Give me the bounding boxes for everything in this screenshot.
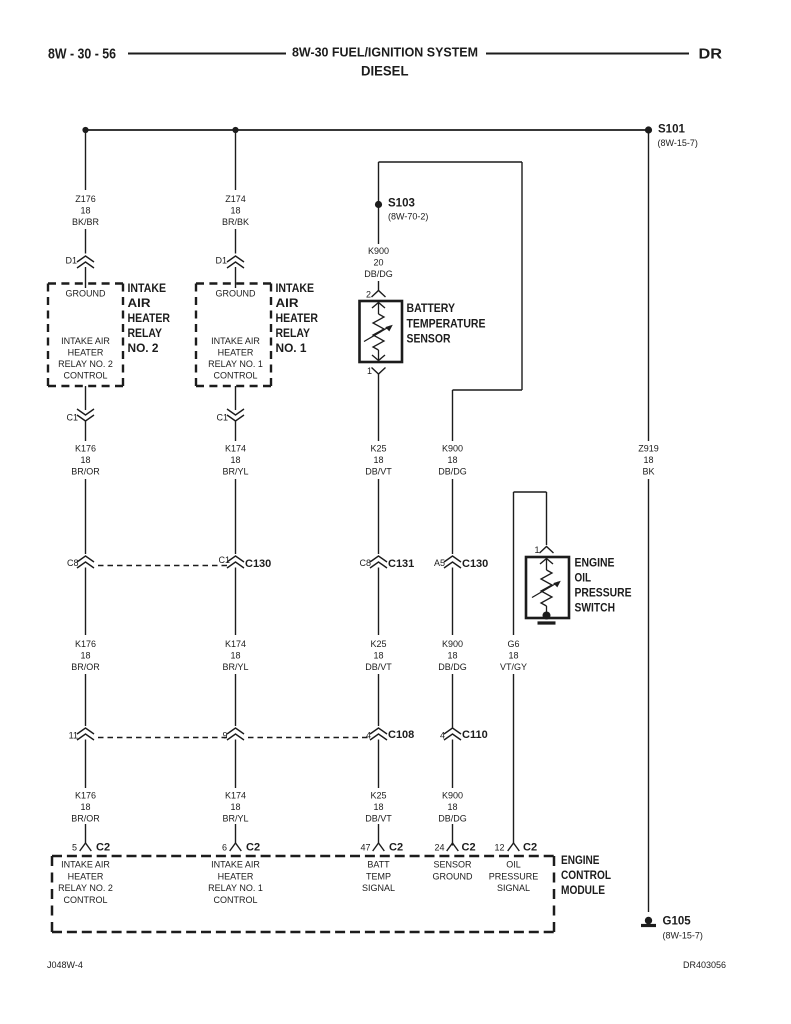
wire label Z919 18 BK bbox=[638, 444, 659, 477]
svg-text:C8: C8 bbox=[67, 558, 79, 568]
connector C2 pin 6 bbox=[230, 843, 242, 851]
svg-text:K174: K174 bbox=[225, 444, 246, 454]
svg-text:Z176: Z176 bbox=[75, 194, 96, 204]
wire K900 18 segment e bbox=[452, 740, 454, 789]
connector pin 1 battery temperature sensor bbox=[372, 368, 386, 375]
wire Z176 upper segment bbox=[85, 130, 87, 190]
svg-text:BR/YL: BR/YL bbox=[222, 814, 248, 824]
svg-text:OIL: OIL bbox=[506, 860, 521, 870]
svg-text:5: 5 bbox=[72, 843, 77, 853]
bus wire top horizontal bbox=[86, 129, 649, 131]
svg-text:BR/YL: BR/YL bbox=[222, 662, 248, 672]
svg-text:C131: C131 bbox=[388, 558, 414, 570]
svg-text:INTAKE AIR: INTAKE AIR bbox=[211, 860, 260, 870]
svg-text:NO. 2: NO. 2 bbox=[128, 343, 159, 355]
svg-text:C1: C1 bbox=[66, 413, 78, 423]
svg-text:BR/OR: BR/OR bbox=[71, 814, 100, 824]
svg-text:K174: K174 bbox=[225, 791, 246, 801]
wire label Z174 18 BR/BK bbox=[222, 194, 249, 227]
svg-text:20: 20 bbox=[373, 258, 383, 268]
svg-text:K25: K25 bbox=[370, 791, 386, 801]
wire K900 20 below splice bbox=[378, 208, 380, 244]
dashed connector link line C130 row bbox=[98, 565, 227, 567]
svg-text:BR/OR: BR/OR bbox=[71, 662, 100, 672]
svg-text:MODULE: MODULE bbox=[561, 885, 605, 897]
wire K176 segment d bbox=[85, 674, 87, 726]
component name BATTERY TEMPERATURE SENSOR bbox=[407, 303, 486, 346]
oil switch internal pin chevron bbox=[540, 559, 553, 565]
svg-text:C2: C2 bbox=[246, 842, 260, 854]
splice S101 bbox=[645, 126, 652, 133]
svg-text:BATT: BATT bbox=[367, 860, 390, 870]
svg-text:K900: K900 bbox=[368, 246, 389, 256]
ECM pin 12 function text bbox=[489, 860, 539, 894]
wire K900 18 segment a bbox=[452, 390, 454, 441]
connector C2 pin 24 bbox=[447, 843, 459, 851]
wire K25 segment d bbox=[378, 674, 380, 726]
svg-text:HEATER: HEATER bbox=[218, 348, 254, 358]
wire label K176 18 BR/OR first bbox=[71, 444, 100, 477]
wire below relay no.1 box bbox=[235, 386, 237, 410]
wire oil switch loop right vertical bbox=[546, 492, 548, 545]
svg-text:TEMP: TEMP bbox=[366, 871, 391, 881]
svg-text:A5: A5 bbox=[434, 558, 445, 568]
svg-text:DR403056: DR403056 bbox=[683, 960, 726, 970]
oil pressure switch case ground dot bbox=[543, 612, 551, 620]
wire K900 18 segment b bbox=[452, 479, 454, 554]
wire K174 segment f bbox=[235, 824, 237, 843]
svg-text:K25: K25 bbox=[370, 444, 386, 454]
wire label K176 18 BR/OR second bbox=[71, 639, 100, 672]
wire oil switch loop top horizontal bbox=[514, 491, 547, 493]
svg-text:C1: C1 bbox=[216, 413, 228, 423]
svg-text:1: 1 bbox=[367, 366, 372, 376]
wire K900 18 segment c bbox=[452, 568, 454, 636]
sensor internal pin 2 chevron bbox=[372, 303, 385, 309]
wire label K176 18 BR/OR third bbox=[71, 791, 100, 824]
intake air heater relay no.2 dashed box bbox=[48, 284, 123, 387]
svg-text:RELAY: RELAY bbox=[128, 328, 163, 340]
svg-text:(8W-70-2): (8W-70-2) bbox=[388, 212, 428, 222]
svg-text:SIGNAL: SIGNAL bbox=[497, 883, 530, 893]
svg-text:C130: C130 bbox=[245, 558, 271, 570]
svg-text:GROUND: GROUND bbox=[66, 289, 106, 299]
svg-text:HEATER: HEATER bbox=[128, 313, 171, 325]
wire K176 segment e bbox=[85, 740, 87, 789]
wire G6 lower segment bbox=[513, 674, 515, 843]
component name ENGINE CONTROL MODULE bbox=[561, 855, 611, 897]
svg-text:18: 18 bbox=[230, 651, 240, 661]
connector D1 relay no.2 bbox=[77, 256, 94, 268]
wire Z919 upper segment bbox=[648, 133, 650, 441]
wire Z174 upper segment bbox=[235, 130, 237, 190]
svg-text:K900: K900 bbox=[442, 791, 463, 801]
svg-text:18: 18 bbox=[508, 651, 518, 661]
splice S103 bbox=[375, 201, 382, 208]
svg-text:PRESSURE: PRESSURE bbox=[489, 871, 539, 881]
svg-text:AIR: AIR bbox=[128, 298, 152, 310]
svg-text:DIESEL: DIESEL bbox=[361, 63, 409, 79]
svg-text:CONTROL: CONTROL bbox=[213, 371, 257, 381]
battery temperature sensor box bbox=[360, 301, 403, 362]
wire K25 segment c bbox=[378, 568, 380, 636]
wire loop top horizontal from sensor branch bbox=[379, 161, 523, 163]
svg-text:K174: K174 bbox=[225, 639, 246, 649]
svg-text:RELAY NO. 2: RELAY NO. 2 bbox=[58, 359, 113, 369]
connector C130 pin C1 bbox=[227, 556, 244, 568]
battery temperature sensor thermistor element bbox=[364, 303, 393, 361]
wire label K25 18 DB/VT first bbox=[365, 444, 392, 477]
svg-text:C2: C2 bbox=[389, 842, 403, 854]
connector C130 pin C8 bbox=[77, 556, 94, 568]
sensor internal pin 1 chevron bbox=[372, 355, 385, 361]
wire loop bottom horizontal bbox=[453, 389, 523, 391]
svg-text:J048W-4: J048W-4 bbox=[47, 960, 83, 970]
svg-text:18: 18 bbox=[447, 802, 457, 812]
component name ENGINE OIL PRESSURE SWITCH bbox=[575, 558, 632, 615]
svg-text:PRESSURE: PRESSURE bbox=[575, 588, 632, 600]
svg-text:1: 1 bbox=[534, 545, 539, 555]
svg-text:(8W-15-7): (8W-15-7) bbox=[658, 138, 698, 148]
engine oil pressure switch box bbox=[526, 557, 569, 618]
svg-text:CONTROL: CONTROL bbox=[561, 870, 611, 882]
wire K25 segment e bbox=[378, 740, 380, 789]
svg-text:SWITCH: SWITCH bbox=[575, 603, 616, 615]
svg-text:G6: G6 bbox=[507, 639, 519, 649]
wire K174 segment c bbox=[235, 568, 237, 636]
svg-text:18: 18 bbox=[80, 455, 90, 465]
wire K176 segment b bbox=[85, 479, 87, 554]
svg-text:D1: D1 bbox=[215, 256, 227, 266]
wire label K174 18 BR/YL second bbox=[222, 639, 248, 672]
svg-text:18: 18 bbox=[643, 455, 653, 465]
svg-text:C108: C108 bbox=[388, 729, 414, 741]
wire K174 segment e bbox=[235, 740, 237, 789]
wire G6 upper segment bbox=[513, 492, 515, 635]
svg-text:GROUND: GROUND bbox=[216, 289, 256, 299]
connector C108 pin 11 bbox=[77, 728, 94, 740]
wire K900 20 to sensor pin bbox=[378, 281, 380, 291]
svg-text:K176: K176 bbox=[75, 639, 96, 649]
svg-text:BK: BK bbox=[642, 467, 654, 477]
intake air heater relay no.1 dashed box bbox=[196, 284, 271, 387]
svg-text:GROUND: GROUND bbox=[433, 871, 473, 881]
wire label K174 18 BR/YL third bbox=[222, 791, 248, 824]
wire label G6 18 VT/GY bbox=[500, 639, 527, 672]
svg-text:RELAY: RELAY bbox=[276, 328, 311, 340]
svg-text:Z174: Z174 bbox=[225, 194, 246, 204]
wire K174 segment b bbox=[235, 479, 237, 554]
connector C2 pin 5 bbox=[80, 843, 92, 851]
svg-text:CONTROL: CONTROL bbox=[63, 371, 107, 381]
connector pin 1 oil pressure switch bbox=[540, 547, 554, 554]
svg-text:47: 47 bbox=[360, 843, 370, 853]
wire K174 segment a bbox=[235, 421, 237, 442]
svg-text:ENGINE: ENGINE bbox=[575, 558, 615, 570]
wire label K900 18 DB/DG first bbox=[438, 444, 467, 477]
svg-text:24: 24 bbox=[434, 843, 444, 853]
svg-text:RELAY NO. 1: RELAY NO. 1 bbox=[208, 359, 263, 369]
svg-text:HEATER: HEATER bbox=[218, 871, 254, 881]
svg-text:6: 6 bbox=[222, 843, 227, 853]
relay no.1 function text bbox=[208, 336, 263, 381]
svg-text:DB/DG: DB/DG bbox=[364, 269, 393, 279]
svg-text:Z919: Z919 bbox=[638, 444, 659, 454]
wire label K900 18 DB/DG second bbox=[438, 639, 467, 672]
wire into relay no.2 box bbox=[85, 267, 87, 288]
wire K900 18 segment f bbox=[452, 824, 454, 846]
svg-text:DB/DG: DB/DG bbox=[438, 662, 467, 672]
svg-text:8W - 30 - 56: 8W - 30 - 56 bbox=[48, 46, 116, 63]
svg-text:18: 18 bbox=[447, 651, 457, 661]
svg-text:C2: C2 bbox=[462, 842, 476, 854]
wire K25 segment b bbox=[378, 479, 380, 554]
svg-text:DB/DG: DB/DG bbox=[438, 467, 467, 477]
svg-text:ENGINE: ENGINE bbox=[561, 855, 600, 867]
wire K25 segment f bbox=[378, 824, 380, 843]
wire label K25 18 DB/VT third bbox=[365, 791, 392, 824]
svg-text:K900: K900 bbox=[442, 639, 463, 649]
svg-text:12: 12 bbox=[494, 843, 504, 853]
svg-text:DB/DG: DB/DG bbox=[438, 814, 467, 824]
ECM pin 24 function text bbox=[433, 860, 473, 882]
dashed connector link line C108 row right bbox=[248, 737, 370, 739]
connector C110 pin 4 bbox=[444, 728, 461, 740]
svg-text:S103: S103 bbox=[388, 198, 415, 210]
svg-text:SIGNAL: SIGNAL bbox=[362, 883, 395, 893]
svg-text:INTAKE AIR: INTAKE AIR bbox=[61, 336, 110, 346]
svg-text:C1: C1 bbox=[218, 555, 230, 565]
wire K176 segment f bbox=[85, 824, 87, 843]
component name INTAKE AIR HEATER RELAY NO. 1 bbox=[276, 283, 319, 355]
ground G105 symbol bbox=[641, 917, 656, 926]
wire Z919 lower segment bbox=[648, 479, 650, 912]
header left rule bbox=[128, 53, 286, 55]
svg-text:18: 18 bbox=[447, 455, 457, 465]
svg-text:DB/VT: DB/VT bbox=[365, 662, 392, 672]
svg-text:RELAY NO. 2: RELAY NO. 2 bbox=[58, 883, 113, 893]
svg-text:K176: K176 bbox=[75, 791, 96, 801]
wire K900 20 upper segment bbox=[378, 162, 380, 201]
connector C2 pin 12 bbox=[508, 843, 520, 851]
svg-text:INTAKE AIR: INTAKE AIR bbox=[61, 860, 110, 870]
component name INTAKE AIR HEATER RELAY NO. 2 bbox=[128, 283, 171, 355]
svg-text:18: 18 bbox=[80, 802, 90, 812]
svg-text:BR/BK: BR/BK bbox=[222, 217, 249, 227]
svg-text:G105: G105 bbox=[663, 916, 692, 928]
svg-text:BR/OR: BR/OR bbox=[71, 467, 100, 477]
svg-text:DB/VT: DB/VT bbox=[365, 467, 392, 477]
connector C2 pin 47 bbox=[373, 843, 385, 851]
wire label K900 20 DB/DG bbox=[364, 246, 393, 279]
wire below relay no.2 box bbox=[85, 386, 87, 410]
connector C1 relay no.2 bbox=[77, 409, 94, 421]
svg-text:RELAY NO. 1: RELAY NO. 1 bbox=[208, 883, 263, 893]
svg-text:BATTERY: BATTERY bbox=[407, 303, 456, 315]
svg-text:18: 18 bbox=[230, 802, 240, 812]
svg-text:9: 9 bbox=[222, 731, 227, 741]
svg-text:HEATER: HEATER bbox=[68, 871, 104, 881]
relay no.2 function text bbox=[58, 336, 113, 381]
svg-text:INTAKE AIR: INTAKE AIR bbox=[211, 336, 260, 346]
ECM pin 47 function text bbox=[362, 860, 395, 894]
svg-text:C8: C8 bbox=[359, 558, 371, 568]
svg-text:11: 11 bbox=[69, 731, 78, 741]
svg-text:BK/BR: BK/BR bbox=[72, 217, 100, 227]
wire K176 segment c bbox=[85, 568, 87, 636]
svg-text:8W-30 FUEL/IGNITION SYSTEM: 8W-30 FUEL/IGNITION SYSTEM bbox=[292, 46, 478, 60]
svg-text:K900: K900 bbox=[442, 444, 463, 454]
junction dot column 2 bbox=[232, 127, 238, 133]
svg-text:2: 2 bbox=[366, 290, 371, 300]
svg-text:K176: K176 bbox=[75, 444, 96, 454]
svg-text:C2: C2 bbox=[523, 842, 537, 854]
wire K174 segment d bbox=[235, 674, 237, 726]
svg-text:K25: K25 bbox=[370, 639, 386, 649]
wire into relay no.1 box bbox=[235, 267, 237, 288]
wire Z174 lower segment bbox=[235, 229, 237, 254]
svg-text:C2: C2 bbox=[96, 842, 110, 854]
connector C108 pin 9 bbox=[227, 728, 244, 740]
connector C108 pin 4 bbox=[370, 728, 387, 740]
oil pressure switch case ground bar bbox=[538, 621, 556, 624]
svg-text:18: 18 bbox=[80, 206, 90, 216]
svg-text:NO. 1: NO. 1 bbox=[276, 343, 308, 355]
svg-text:D1: D1 bbox=[65, 256, 77, 266]
svg-text:DR: DR bbox=[699, 46, 723, 63]
svg-text:DB/VT: DB/VT bbox=[365, 814, 392, 824]
svg-text:TEMPERATURE: TEMPERATURE bbox=[407, 319, 486, 331]
svg-text:C110: C110 bbox=[462, 729, 488, 741]
svg-text:18: 18 bbox=[80, 651, 90, 661]
svg-text:S101: S101 bbox=[658, 124, 685, 136]
svg-text:SENSOR: SENSOR bbox=[433, 860, 472, 870]
svg-text:SENSOR: SENSOR bbox=[407, 334, 452, 346]
engine oil pressure switch variable element bbox=[532, 559, 561, 615]
wire label K174 18 BR/YL first bbox=[222, 444, 248, 477]
svg-text:BR/YL: BR/YL bbox=[222, 467, 248, 477]
connector D1 relay no.1 bbox=[227, 256, 244, 268]
svg-text:18: 18 bbox=[373, 455, 383, 465]
connector C131 pin C8 bbox=[370, 556, 387, 568]
svg-text:CONTROL: CONTROL bbox=[63, 895, 107, 905]
svg-text:AIR: AIR bbox=[276, 298, 300, 310]
connector C1 relay no.1 bbox=[227, 409, 244, 421]
header right rule bbox=[486, 53, 689, 55]
svg-text:OIL: OIL bbox=[575, 573, 592, 585]
wire K25 segment a bbox=[378, 374, 380, 441]
wire K900 18 segment d bbox=[452, 674, 454, 728]
svg-text:VT/GY: VT/GY bbox=[500, 662, 527, 672]
dashed connector link line C108 row left bbox=[98, 737, 227, 739]
svg-text:C130: C130 bbox=[462, 558, 488, 570]
svg-text:18: 18 bbox=[230, 455, 240, 465]
svg-text:INTAKE: INTAKE bbox=[276, 283, 315, 295]
svg-text:CONTROL: CONTROL bbox=[213, 895, 257, 905]
wire Z176 lower segment bbox=[85, 229, 87, 254]
ECM pin 6 function text bbox=[208, 860, 263, 905]
wire K176 segment a bbox=[85, 421, 87, 442]
wire loop right vertical bbox=[521, 162, 523, 390]
ECM pin 5 function text bbox=[58, 860, 113, 905]
wire label K25 18 DB/VT second bbox=[365, 639, 392, 672]
connector C130 pin A5 bbox=[444, 556, 461, 568]
engine control module dashed box bbox=[52, 856, 554, 932]
svg-text:18: 18 bbox=[373, 802, 383, 812]
wire label Z176 18 BK/BR bbox=[72, 194, 100, 227]
svg-text:HEATER: HEATER bbox=[68, 348, 104, 358]
svg-text:HEATER: HEATER bbox=[276, 313, 319, 325]
svg-text:18: 18 bbox=[230, 206, 240, 216]
connector pin 2 battery temperature sensor bbox=[372, 291, 386, 298]
junction dot column 1 bbox=[82, 127, 88, 133]
svg-text:INTAKE: INTAKE bbox=[128, 283, 167, 295]
svg-text:18: 18 bbox=[373, 651, 383, 661]
svg-text:(8W-15-7): (8W-15-7) bbox=[663, 931, 703, 941]
wire label K900 18 DB/DG third bbox=[438, 791, 467, 824]
